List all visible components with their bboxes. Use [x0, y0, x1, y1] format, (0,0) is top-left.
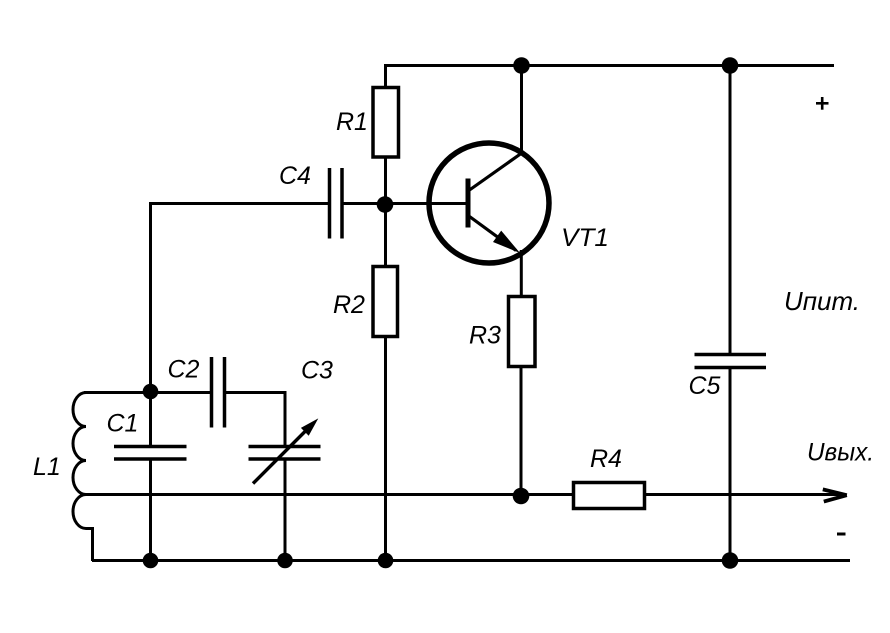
svg-text:R1: R1 [336, 108, 368, 136]
node collector top junction dot [513, 57, 530, 74]
resistor R3 [509, 297, 536, 367]
capacitor C1 [149, 392, 152, 446]
node left tank junction dot [143, 384, 159, 400]
svg-text:C2: C2 [168, 356, 200, 384]
wire R1 bottom lead to base node [384, 157, 387, 205]
capacitor C2 [210, 357, 214, 428]
resistor R4 [574, 483, 645, 509]
capacitor C4 [328, 168, 332, 239]
transistor VT1 [429, 143, 549, 263]
capacitor C5 [695, 353, 767, 357]
wire base node to R2 [384, 204, 387, 267]
svg-text:L1: L1 [33, 453, 61, 481]
node top rail dot at C5 [722, 57, 739, 74]
node bottom rail dot at C3 [277, 553, 293, 569]
inductor L1 [73, 393, 150, 562]
wire R2 bottom lead down to bottom rail [384, 337, 387, 562]
wire C5 bottom lead [729, 368, 732, 561]
wire collector lead to top rail [520, 64, 523, 154]
svg-text:R3: R3 [469, 322, 501, 350]
wire top supply rail [384, 64, 834, 67]
minus sign [837, 533, 846, 536]
wire C2 to C3 corner [225, 393, 286, 447]
resistor R1 [373, 88, 399, 158]
node bottom rail dot at R2 [378, 553, 394, 569]
wire R1 top lead [384, 64, 387, 88]
node base junction dot [377, 196, 394, 213]
svg-text:C5: C5 [689, 372, 721, 400]
resistor R2 [373, 267, 398, 337]
svg-text:R2: R2 [333, 291, 365, 319]
wire output line right of R4 with arrow [645, 493, 841, 496]
svg-text:R4: R4 [590, 445, 622, 473]
wire bottom rail [92, 559, 850, 562]
svg-text:Uпит.: Uпит. [784, 286, 860, 316]
capacitor C3 variable [249, 445, 321, 449]
node bottom rail dot at C1 [143, 553, 159, 569]
wire emitter lead to R3 [520, 250, 523, 297]
wire C4 to transistor base [342, 202, 468, 205]
plus sign [816, 102, 829, 105]
wire left branch horizontal into C4 [151, 204, 330, 393]
wire R3 bottom lead to output line [520, 366, 523, 495]
svg-text:C1: C1 [107, 410, 139, 438]
svg-text:VT1: VT1 [561, 224, 609, 252]
wire tank top horizontal to C2 [84, 391, 211, 394]
output arrowhead [823, 489, 847, 495]
wire C5 top lead [729, 64, 732, 355]
svg-text:C3: C3 [301, 357, 333, 385]
node R3 output junction dot [513, 488, 530, 505]
node bottom rail dot at C5 [722, 552, 739, 569]
svg-text:C4: C4 [279, 162, 311, 190]
svg-text:Uвых.: Uвых. [807, 439, 874, 467]
wire output line left of R4 [86, 493, 574, 496]
